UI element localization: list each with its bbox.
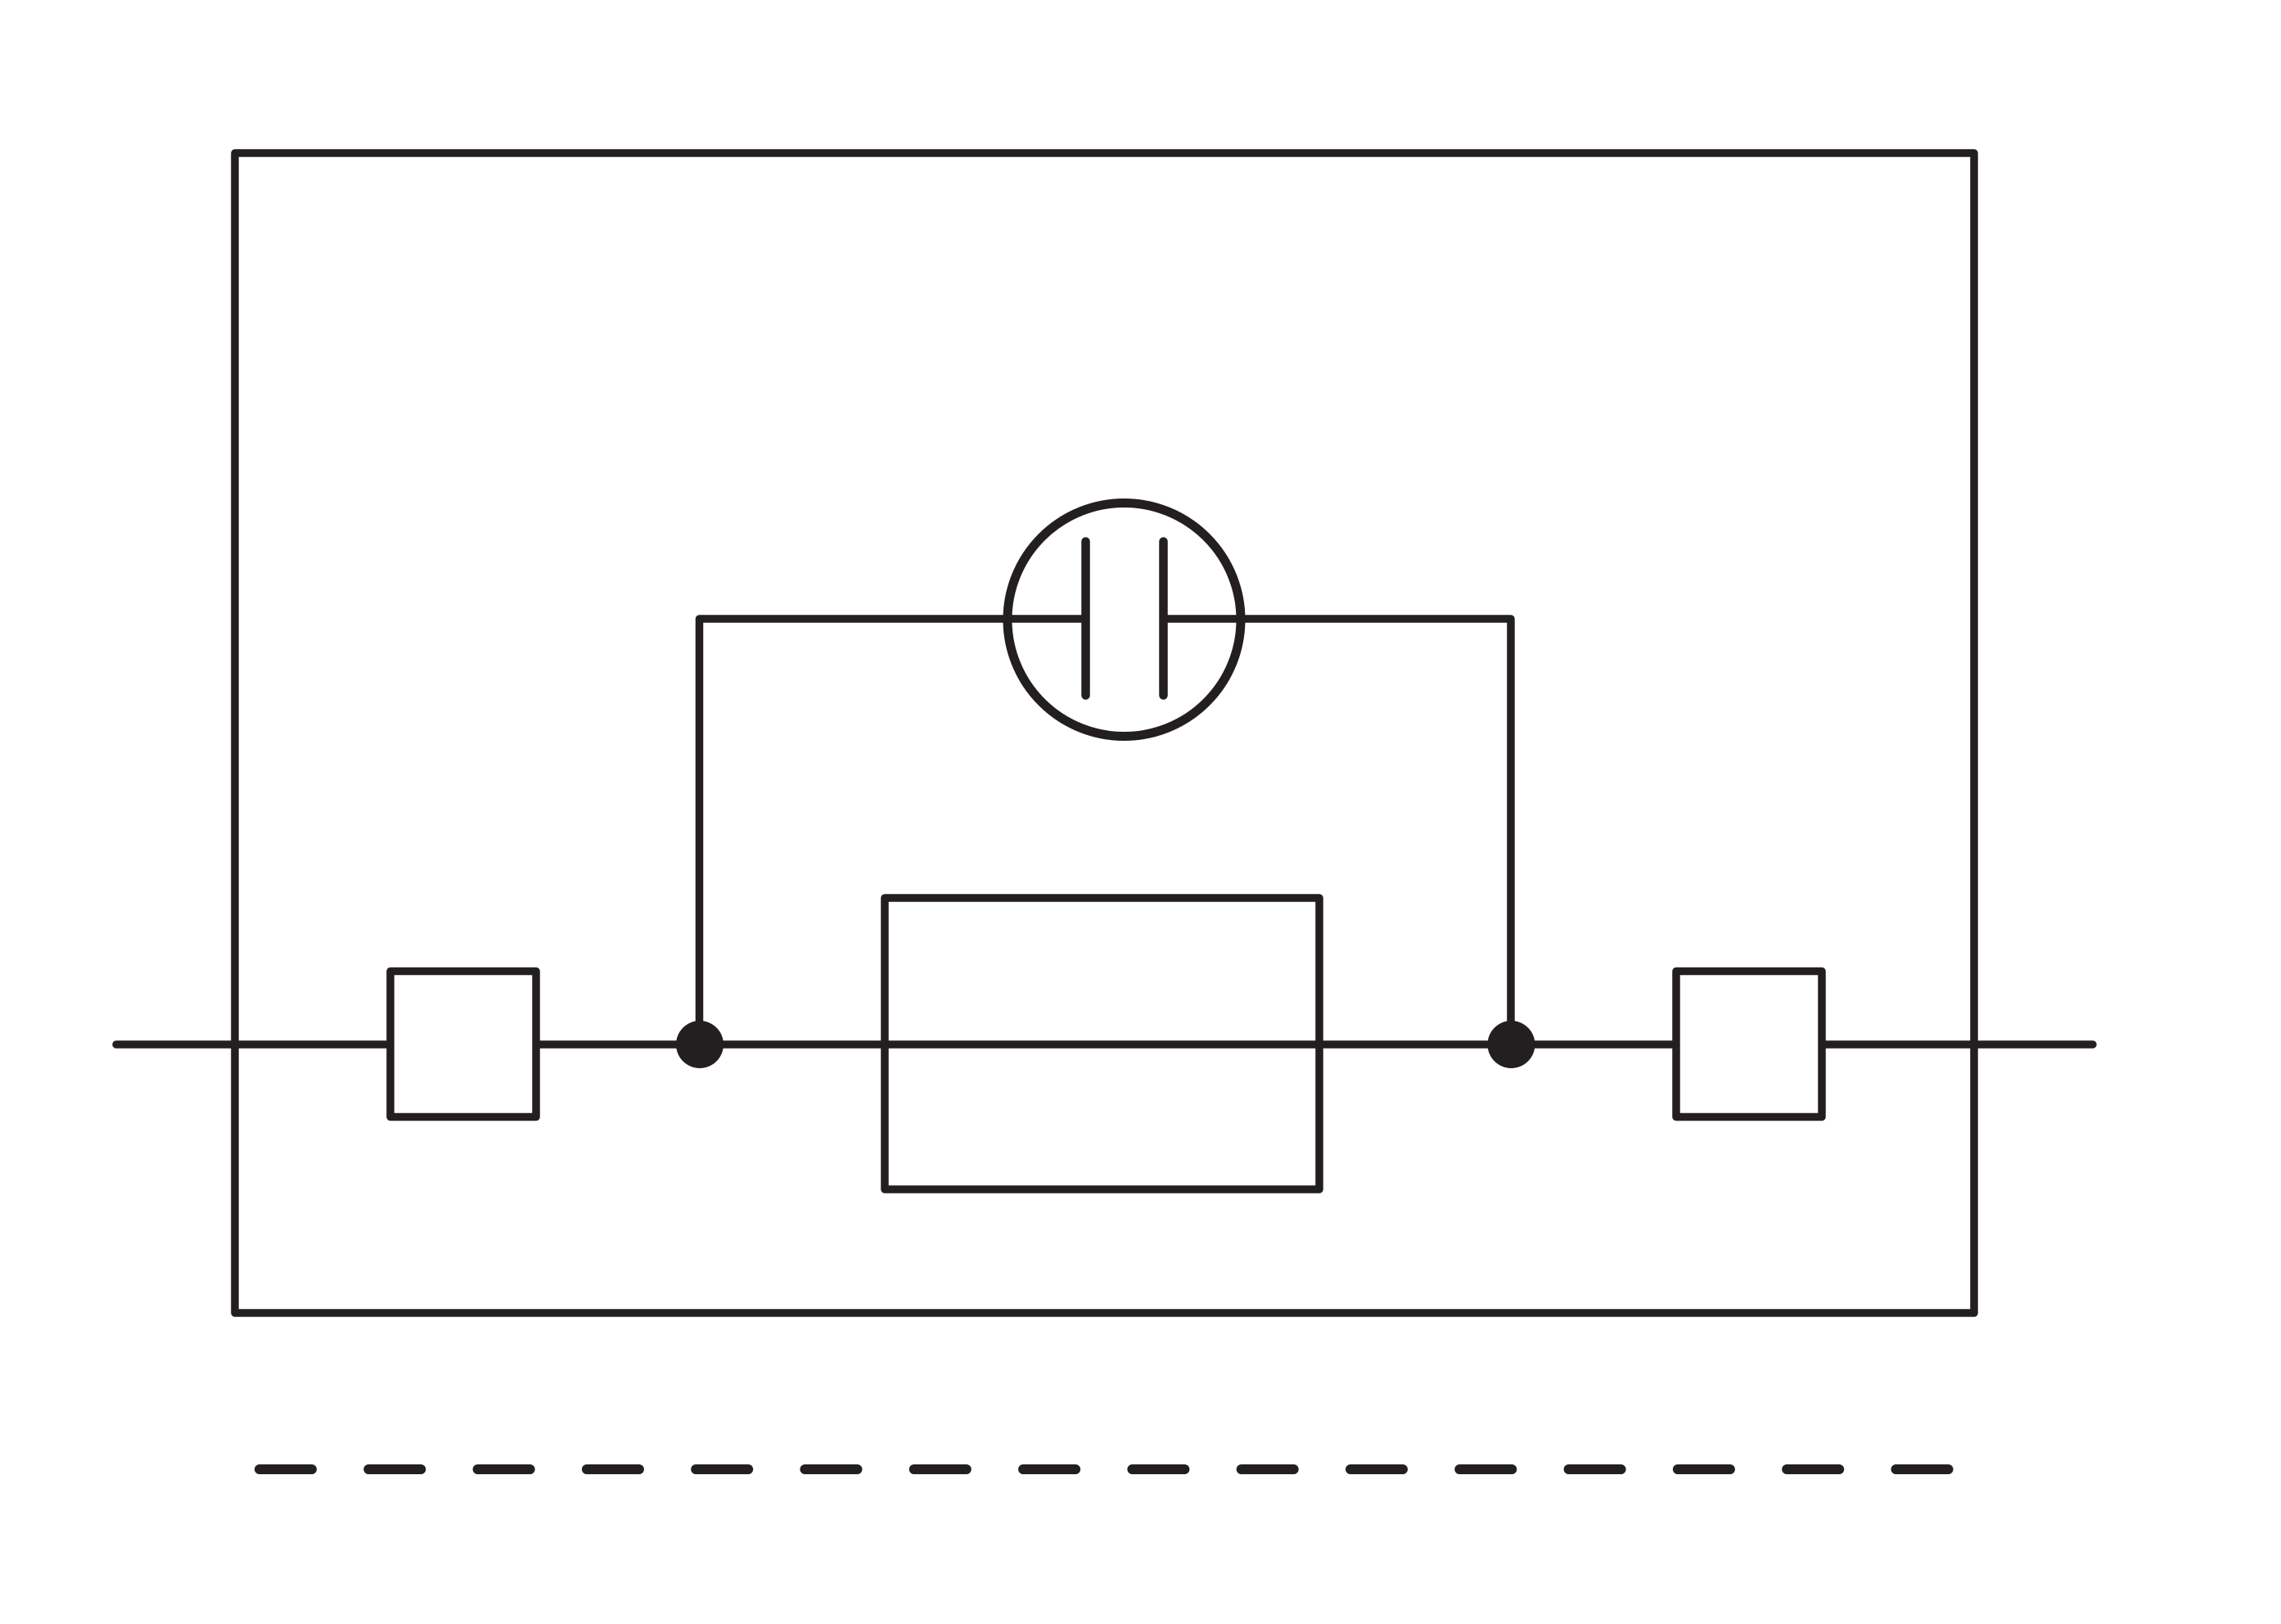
- junction node left (dot): [676, 1021, 724, 1068]
- wire: left branch riser and top run to indicator: [700, 619, 1086, 1044]
- blown-fuse indicator lamp (circle): [1008, 503, 1241, 737]
- wire: right lead out of housing: [1822, 1040, 2093, 1049]
- terminal clamp contact right (square): [1676, 972, 1822, 1117]
- capacitor plate right (inside indicator): [1159, 542, 1168, 696]
- fuse (rectangle on main conductor): [885, 898, 1319, 1189]
- rail marker (dashed mounting-rail line): [259, 1464, 1950, 1474]
- wire: top run from indicator and right branch riser: [1164, 619, 1512, 1044]
- capacitor plate left (inside indicator): [1081, 542, 1090, 696]
- wire: left lead into housing: [116, 1040, 390, 1049]
- terminal block housing outline: [235, 153, 1974, 1313]
- junction node right (dot): [1488, 1021, 1535, 1068]
- terminal clamp contact left (square): [390, 972, 536, 1117]
- wire: main conductor between clamps (through fuse): [536, 1040, 1676, 1049]
